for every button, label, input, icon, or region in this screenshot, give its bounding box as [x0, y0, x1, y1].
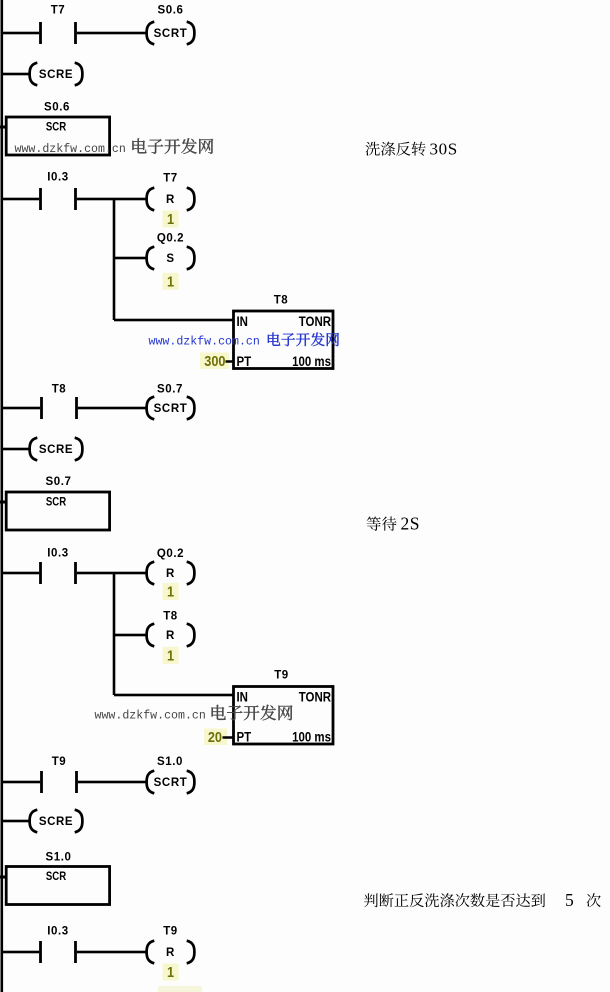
partial value halo at bottom edge [158, 986, 202, 992]
svg-text:IN: IN [237, 314, 248, 329]
label Q0.2 above S coil [157, 233, 184, 245]
svg-text:R: R [166, 630, 175, 642]
tick 300 to PT [226, 360, 234, 363]
svg-text:S: S [166, 253, 174, 265]
label S0.7 above SCR box 2 [45, 476, 71, 488]
coil R T8 [147, 624, 195, 647]
svg-text:S1.0: S1.0 [45, 851, 71, 863]
wire rail to SCRE coil 3 [3, 820, 31, 823]
svg-text:T7: T7 [51, 4, 66, 16]
label Q0.2 above R coil [157, 548, 184, 560]
coil SCRT S1.0 [147, 771, 195, 794]
label T9 above R coil [163, 925, 178, 937]
value 20 at PT input [204, 728, 227, 745]
svg-text:R: R [166, 194, 175, 206]
svg-text:100 ms: 100 ms [292, 354, 331, 369]
label S0.6 above SCRT coil [157, 4, 183, 16]
coil R T7 [147, 188, 195, 211]
wire branch to S coil [114, 257, 147, 260]
svg-text:S0.6: S0.6 [44, 101, 70, 113]
value 300 at PT input [200, 352, 229, 369]
wire rail to SCRE coil 2 [3, 448, 31, 451]
svg-text:T8: T8 [274, 294, 289, 306]
svg-text:www.dzkfw.com.cn: www.dzkfw.com.cn [149, 336, 260, 349]
tick 20 to PT [223, 736, 235, 739]
label S1.0 above SCR box 3 [45, 851, 71, 863]
coil SCRE 1 [30, 63, 83, 86]
label T8 above R coil 2 [163, 610, 178, 622]
svg-text:5: 5 [565, 890, 574, 910]
watermark 2 latin www.dzkfw.com.cn blue [149, 336, 260, 349]
label T7 above R coil [163, 172, 178, 184]
branch vertical a [113, 199, 116, 320]
svg-text:1: 1 [167, 210, 174, 227]
svg-text:SCRT: SCRT [154, 777, 188, 789]
branch vertical b [113, 573, 116, 695]
svg-text:Q0.2: Q0.2 [157, 548, 184, 560]
value 1 under R T9 [163, 963, 179, 981]
coil R T9 [147, 941, 195, 964]
svg-text:PT: PT [237, 354, 252, 369]
svg-text:T8: T8 [52, 383, 67, 395]
svg-text:T9: T9 [274, 669, 289, 681]
label S0.6 above SCR box 1 [44, 101, 70, 113]
label S0.7 above SCRT coil [157, 383, 183, 395]
contact T9 [3, 756, 78, 793]
svg-text:www.dzkfw.com.cn: www.dzkfw.com.cn [95, 710, 206, 723]
timer box TONR T9 [234, 687, 334, 745]
svg-text:S1.0: S1.0 [157, 756, 183, 768]
comment text dengdai 2S [367, 514, 420, 534]
svg-text:T8: T8 [163, 610, 178, 622]
svg-text:1: 1 [167, 272, 174, 289]
watermark 2 cjk dianzikaifawang blue [268, 332, 339, 346]
svg-text:R: R [166, 568, 175, 580]
svg-text:SCR: SCR [46, 496, 66, 509]
coil SCRT S0.7 [147, 397, 195, 420]
label T9 above TONR box [274, 669, 289, 681]
timer box TONR T8 [234, 311, 334, 369]
svg-text:300: 300 [204, 352, 225, 369]
svg-text:1: 1 [167, 646, 174, 663]
SCR box S1.0 [0, 867, 110, 905]
wire contact I0.3b to branch [77, 572, 147, 575]
svg-text:SCRT: SCRT [154, 403, 188, 415]
svg-text:S0.7: S0.7 [157, 383, 183, 395]
coil SCRE 2 [30, 438, 83, 461]
contact I0.3 c [3, 925, 77, 963]
value 1 under R T8 [163, 646, 179, 664]
coil S Q0.2 [147, 247, 195, 270]
contact I0.3 a [3, 172, 77, 211]
wire branch to TONR T8 [114, 319, 234, 322]
watermark 3 latin www.dzkfw.com.cn [95, 710, 206, 723]
svg-text:T7: T7 [163, 172, 178, 184]
svg-text:PT: PT [237, 729, 252, 744]
value 1 under R Q0.2 [163, 582, 179, 600]
svg-text:IN: IN [237, 689, 248, 704]
svg-text:30S: 30S [430, 140, 458, 159]
wire rail to SCRE coil 1 [3, 73, 31, 76]
coil SCRT S0.6 [147, 22, 195, 45]
comment text xidifanzhuan 30S [365, 140, 457, 159]
svg-text:1: 1 [167, 582, 174, 599]
svg-text:SCRE: SCRE [39, 816, 73, 828]
wire branch to R T8 coil [114, 634, 147, 637]
coil SCRE 3 [30, 810, 83, 833]
svg-text:R: R [166, 947, 175, 959]
wire contact I0.3a to branch [77, 198, 147, 201]
SCR box S0.6 [0, 117, 110, 155]
contact T8 [3, 383, 78, 419]
wire contact I0.3c to coil [77, 951, 147, 954]
svg-text:T9: T9 [52, 756, 67, 768]
svg-text:SCRE: SCRE [39, 444, 73, 456]
svg-text:SCR: SCR [46, 121, 66, 134]
comment text panduan 5 ci [364, 890, 601, 910]
wire contact T8 to coil [78, 407, 147, 410]
label S1.0 above SCRT coil [157, 756, 183, 768]
svg-text:SCRE: SCRE [39, 69, 73, 81]
svg-text:1: 1 [167, 963, 174, 980]
contact T7 [3, 4, 77, 44]
svg-text:100 ms: 100 ms [292, 729, 331, 744]
label T8 above TONR box [274, 294, 289, 306]
contact I0.3 b [3, 548, 77, 585]
svg-text:TONR: TONR [299, 314, 331, 329]
value 1 under R T7 [163, 210, 179, 228]
svg-text:2S: 2S [401, 514, 420, 534]
svg-text:I0.3: I0.3 [47, 172, 69, 184]
wire branch to TONR T9 [114, 694, 234, 697]
value 1 under S Q0.2 [163, 272, 179, 290]
watermark 3 cjk dianzikaifawang [212, 705, 293, 721]
svg-text:SCRT: SCRT [154, 28, 188, 40]
svg-text:T9: T9 [163, 925, 178, 937]
svg-text:20: 20 [208, 728, 222, 745]
svg-text:TONR: TONR [299, 689, 331, 704]
watermark 1 cjk dianzikaifawang [132, 138, 213, 154]
svg-text:I0.3: I0.3 [47, 925, 69, 937]
watermark 1 latin www.dzkfw.com.cn [15, 143, 126, 156]
svg-text:S0.6: S0.6 [157, 4, 183, 16]
svg-text:www.dzkfw.com.cn: www.dzkfw.com.cn [15, 143, 126, 156]
wire contact T7 to coil [77, 32, 147, 35]
svg-text:I0.3: I0.3 [47, 548, 69, 560]
SCR box S0.7 [0, 492, 110, 530]
wire contact T9 to coil [78, 781, 147, 784]
svg-text:Q0.2: Q0.2 [157, 233, 184, 245]
left power rail [1, 0, 4, 992]
svg-text:S0.7: S0.7 [45, 476, 71, 488]
svg-text:SCR: SCR [46, 870, 66, 883]
coil R Q0.2 [147, 562, 195, 585]
